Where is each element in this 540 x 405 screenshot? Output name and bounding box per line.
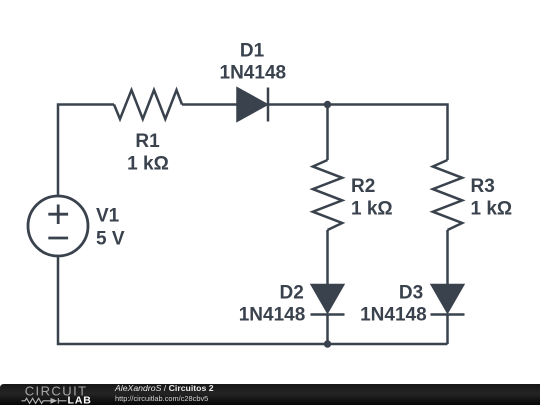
wire D3 to bottom wire: [446, 315, 449, 345]
svg-text:LAB: LAB: [68, 395, 92, 405]
svg-text:1 kΩ: 1 kΩ: [351, 199, 393, 220]
wire D2 to node B: [326, 315, 329, 345]
wire R2 to D2: [326, 230, 329, 285]
svg-text:R1: R1: [135, 131, 160, 152]
wire left vertical top (node from V1+ to R1): [58, 105, 114, 197]
svg-text:D1: D1: [240, 41, 265, 62]
wire R3 to D3: [446, 230, 449, 285]
svg-text:1N4148: 1N4148: [239, 304, 306, 325]
wire node A to top-right corner: [328, 105, 448, 161]
node A junction dot: [324, 101, 331, 108]
svg-text:AleXandroS / Circuitos 2: AleXandroS / Circuitos 2: [114, 383, 214, 393]
footer bar: [0, 384, 540, 405]
svg-text:http://circuitlab.com/c28cbv5: http://circuitlab.com/c28cbv5: [115, 394, 208, 403]
wire node A down to R2: [326, 105, 329, 161]
svg-text:1 kΩ: 1 kΩ: [471, 199, 513, 220]
CircuitLab logo symbol (resistor + diode): [22, 398, 67, 404]
resistor R3: [433, 160, 462, 230]
diode D3: [431, 285, 465, 315]
svg-text:D2: D2: [280, 282, 304, 303]
wire bottom rail: [58, 256, 448, 344]
voltage source V1: [28, 196, 88, 256]
resistor R2: [313, 160, 342, 230]
wire D1 to node A: [268, 103, 328, 106]
svg-text:1N4148: 1N4148: [360, 304, 427, 325]
svg-text:1N4148: 1N4148: [220, 63, 287, 84]
node B junction dot: [324, 340, 331, 347]
svg-text:R3: R3: [471, 176, 495, 197]
svg-text:5 V: 5 V: [96, 229, 125, 250]
resistor R1: [114, 90, 182, 119]
diode D1: [238, 88, 269, 122]
svg-text:1 kΩ: 1 kΩ: [127, 154, 169, 175]
svg-text:R2: R2: [351, 176, 375, 197]
diode D2: [311, 285, 345, 315]
svg-text:D3: D3: [399, 282, 423, 303]
wire R1 to D1: [182, 103, 238, 106]
svg-text:V1: V1: [96, 206, 120, 227]
